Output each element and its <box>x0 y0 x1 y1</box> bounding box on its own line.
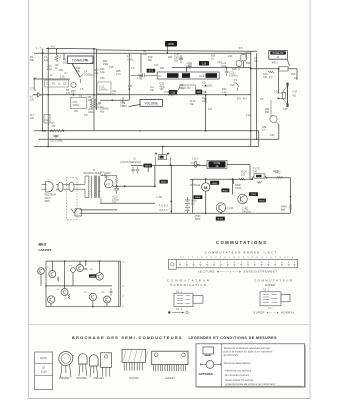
wire switch out 2 <box>80 212 195 214</box>
svg-text:R.4: R.4 <box>243 98 247 101</box>
svg-text:0.0022µ: 0.0022µ <box>84 74 93 77</box>
wire vertical mid x96.5 <box>96 49 98 110</box>
super switch box <box>260 292 290 306</box>
SW400 black label <box>144 164 153 168</box>
wire vertical x205.6 <box>205 95 207 131</box>
ecouteur boxed black label top right <box>269 51 290 66</box>
svg-text:C31: C31 <box>270 134 275 137</box>
BE3 frame wires <box>41 261 121 307</box>
svg-text:TRANSFO ALIM.: TRANSFO ALIM. <box>83 172 102 175</box>
sonorisation legend dots <box>168 311 188 313</box>
svg-text:IC-2: IC-2 <box>199 74 205 78</box>
svg-text:( HAUT PARLEUR ): ( HAUT PARLEUR ) <box>120 161 141 164</box>
wire motor bottom y213.3 <box>195 212 290 214</box>
resistor pair x94 <box>90 98 96 109</box>
switch strip ENREG/LECT <box>176 260 298 268</box>
svg-text:Ω: Ω <box>263 176 265 179</box>
wire piles v x171.3 <box>170 166 172 214</box>
svg-text:0.0047µ: 0.0047µ <box>229 74 238 77</box>
svg-text:COMMUTATIONS: COMMUTATIONS <box>216 240 266 245</box>
wire vertical left A <box>42 48 44 130</box>
page edge right <box>309 0 311 399</box>
svg-text:2SB186P: 2SB186P <box>59 377 70 380</box>
svg-text:2.2k: 2.2k <box>222 91 227 94</box>
C22 value <box>229 72 238 78</box>
svg-text:104: 104 <box>263 76 268 79</box>
black label R403 <box>216 217 225 221</box>
svg-text:450µ: 450µ <box>179 87 185 90</box>
legend underline <box>225 385 302 387</box>
BE3 black label <box>89 274 97 278</box>
svg-text:+10µ/25V: +10µ/25V <box>202 85 213 88</box>
jack component top <box>155 146 171 166</box>
capacitor C13 symbol <box>54 135 59 138</box>
wire right v x290.4 <box>289 178 291 214</box>
svg-text:2.2k: 2.2k <box>60 76 65 79</box>
svg-text:470Ω: 470Ω <box>235 187 241 190</box>
svg-text:150: 150 <box>265 111 270 114</box>
BE3 junction dots <box>45 260 100 307</box>
svg-text:4.7k: 4.7k <box>116 73 121 76</box>
black label R401 <box>193 195 202 199</box>
wire mid-band y165.5 <box>131 165 207 167</box>
package labels <box>59 377 176 380</box>
svg-text:102: 102 <box>241 174 246 177</box>
svg-text:R403: R403 <box>218 219 224 221</box>
small cap symbols cluster <box>139 55 192 80</box>
wire vertical label drop <box>166 47 168 54</box>
resistor below box <box>257 180 262 183</box>
wire left short y79 <box>33 78 70 80</box>
svg-text:LECTURE ◄―――┼――► ENREGISTREMEN: LECTURE ◄―――┼――► ENREGISTREMENT <box>198 269 277 273</box>
resistor R7 zigzag horizontal <box>51 130 63 133</box>
svg-text:4.7µ: 4.7µ <box>137 77 142 80</box>
wire v x240.4 <box>233 179 235 184</box>
wire stub Q transistor <box>243 61 245 68</box>
BE3 terminal labels <box>123 261 125 309</box>
wire BE3 right 2 <box>120 261 122 307</box>
svg-text:LA4400T: LA4400T <box>165 377 176 380</box>
wire switch out 1 <box>80 209 117 211</box>
black label R404 <box>258 199 266 203</box>
wire fuse to piles <box>227 164 250 166</box>
svg-text:R20: R20 <box>168 56 173 59</box>
C16 black label <box>199 61 209 66</box>
black label Q101 <box>249 192 258 196</box>
svg-text:potentiomètre de volume au min: potentiomètre de volume au minimum) <box>226 382 275 386</box>
svg-text:de 40 KΩ/V.: de 40 KΩ/V. <box>224 353 240 357</box>
svg-text:COMMUTATEUR ENREG./LECT.: COMMUTATEUR ENREG./LECT. <box>205 251 278 255</box>
wire transfo out <box>113 185 155 187</box>
resistor R31 vertical <box>115 177 117 186</box>
svg-text:- Alimenté sur secteur: - Alimenté sur secteur <box>224 369 252 373</box>
epoxy transistor 2SC693F <box>79 354 88 376</box>
resistor box black insert <box>256 175 262 178</box>
svg-text:C16: C16 <box>202 62 207 65</box>
sonorisation switch box <box>174 293 203 306</box>
extra value labels right <box>168 55 297 138</box>
svg-text:I.C.: I.C. <box>133 157 137 160</box>
SIP TA713PA <box>122 349 148 370</box>
wire stub resistor R5 <box>56 49 58 56</box>
parts table text <box>40 356 47 374</box>
BE3 transistor arrows <box>40 266 108 302</box>
input network box <box>45 80 69 87</box>
wire q101 v x232.6 <box>232 179 234 194</box>
svg-text:100k: 100k <box>63 62 69 65</box>
svg-text:2.2µ: 2.2µ <box>47 68 52 71</box>
switch strip left end box <box>168 260 176 270</box>
dots x205.6 <box>205 85 207 93</box>
wire top bus 1 right <box>97 50 258 51</box>
wire fuse corner <box>249 165 251 180</box>
svg-text:Ø131: Ø131 <box>40 356 47 360</box>
svg-text:P I L E S: P I L E S <box>159 205 169 208</box>
wire into IC-2 <box>131 73 157 77</box>
transistor Q102 <box>216 203 233 213</box>
speaker H.P. <box>277 83 289 108</box>
BE3 transistor Q3 <box>71 268 76 273</box>
svg-text:100µ: 100µ <box>88 111 94 114</box>
svg-text:C24: C24 <box>228 55 233 58</box>
pot P2 arrow <box>122 97 125 104</box>
svg-text:MOTEUR: MOTEUR <box>190 184 201 187</box>
PILES label <box>159 205 169 213</box>
legend monitor icon <box>203 347 214 356</box>
wire stub cap R17 <box>140 53 142 72</box>
svg-text:J-113: J-113 <box>192 158 198 161</box>
svg-text:2SC693F: 2SC693F <box>76 377 87 380</box>
legend outer box <box>196 344 305 388</box>
plug symbol J-113 <box>190 162 200 167</box>
black label C18 <box>169 90 177 94</box>
wire mid bus y95 <box>33 94 251 96</box>
svg-text:Q 102: Q 102 <box>227 207 234 210</box>
450u text <box>160 83 166 92</box>
BE3 transistor Q9 <box>104 296 111 303</box>
svg-text:LA4400T: LA4400T <box>39 248 52 252</box>
svg-text:4Ω: 4Ω <box>293 94 297 98</box>
svg-text:16V: 16V <box>112 201 117 204</box>
wire BE3 left <box>45 261 47 307</box>
wire vertical left B <box>47 48 49 146</box>
SECTEUR text <box>45 194 57 204</box>
junction dots top <box>42 48 280 148</box>
svg-text:R405: R405 <box>273 170 279 173</box>
svg-text:R29: R29 <box>246 62 251 65</box>
svg-text:SW40: SW40 <box>145 166 152 168</box>
resistor R405 zigzag h <box>276 176 283 178</box>
BE3 transistor Q6 <box>61 289 68 296</box>
wire vertical right x250.8 <box>250 51 252 147</box>
svg-text:R28: R28 <box>232 68 237 71</box>
resistor R5 zigzag <box>55 55 58 62</box>
M400 black label <box>160 180 168 184</box>
svg-text:330: 330 <box>253 171 258 174</box>
svg-text:8.2k: 8.2k <box>44 59 49 62</box>
svg-text:6x1,5 V: 6x1,5 V <box>160 209 169 212</box>
svg-text:S3 - 2: S3 - 2 <box>263 289 270 292</box>
svg-text:M400: M400 <box>161 182 167 184</box>
svg-text:R 5: R 5 <box>51 46 55 49</box>
extra value labels top-left <box>30 47 94 122</box>
wire motor top right <box>267 177 291 179</box>
switch V symbol <box>71 209 82 217</box>
wire motor v below <box>205 191 207 213</box>
svg-text:SUPER ◄― ―► NORMAL: SUPER ◄― ―► NORMAL <box>254 310 296 314</box>
svg-text:C20: C20 <box>197 92 202 94</box>
svg-text:50Hz: 50Hz <box>45 200 51 203</box>
svg-text:470: 470 <box>66 92 71 95</box>
capacitor C22 <box>225 68 229 76</box>
epoxy transistor 2SB0254 <box>90 355 99 377</box>
BE3 small marks <box>57 269 113 300</box>
junction dots motor <box>205 177 291 214</box>
legend right column text <box>224 346 275 386</box>
bridge rectifier B31 <box>105 179 113 187</box>
svg-text:Ω: Ω <box>277 55 279 59</box>
BE3 transistor Q5 <box>96 273 103 280</box>
wire motor left side <box>192 179 194 213</box>
wire x148.2 drop <box>147 166 149 173</box>
svg-text:C20: C20 <box>100 77 105 80</box>
svg-text:C23: C23 <box>217 61 222 64</box>
svg-text:R21: R21 <box>160 67 165 70</box>
page edge bottom <box>29 398 311 400</box>
resistor RCH zigzag in wire <box>239 178 245 180</box>
parts table <box>35 352 53 390</box>
svg-text:N: N <box>159 74 161 78</box>
wire bump under IC-2 <box>164 85 206 92</box>
BE3 transistor Q7 <box>48 296 55 303</box>
transistor top-right <box>240 53 247 61</box>
BE3 transistor Q1 <box>38 268 45 275</box>
wire x154.9 drop <box>154 166 156 187</box>
svg-text:10µ: 10µ <box>187 87 192 90</box>
transistor Q101 <box>238 194 248 204</box>
svg-text:R405: R405 <box>212 183 218 185</box>
wire right end x297 <box>296 69 298 80</box>
svg-text:0.4022µ: 0.4022µ <box>242 211 251 214</box>
svg-text:0.039µ: 0.039µ <box>55 140 63 143</box>
transformer Tr <box>85 176 117 204</box>
capacitor C12 box <box>71 98 87 109</box>
capacitor C31 <box>114 185 119 195</box>
svg-text:Q101: Q101 <box>251 194 257 196</box>
pot P1 arrow <box>237 83 240 91</box>
svg-text:0.1 W: 0.1 W <box>100 174 107 177</box>
page edge left <box>28 0 30 399</box>
box 0.0047 <box>97 82 111 94</box>
wire BE3 right 1 <box>118 261 120 307</box>
svg-text:1 - 7: 1 - 7 <box>36 47 41 50</box>
svg-text:BROCHAGE DES SEMI-CONDUCTEUR: BROCHAGE DES SEMI-CONDUCTEURS <box>72 335 182 340</box>
input jack arrow <box>34 78 41 97</box>
svg-text:PRISE HP: PRISE HP <box>273 53 284 55</box>
svg-text:10µ: 10µ <box>112 93 117 96</box>
small parts cluster left-top texts <box>30 46 104 143</box>
svg-text:S2 - 2: S2 - 2 <box>176 308 183 311</box>
R-1 0.1W text <box>100 171 107 177</box>
svg-text:16V: 16V <box>174 60 179 63</box>
svg-text:470: 470 <box>208 108 213 111</box>
TO-39 can 2SB186P <box>59 352 74 378</box>
extra value labels mid <box>103 56 173 96</box>
wire under transfo <box>100 202 155 204</box>
svg-text:IC-1: IC-1 <box>149 71 154 73</box>
label TONALITE box <box>68 56 94 77</box>
battery symbol <box>185 197 190 213</box>
label VOLUME box <box>129 100 163 107</box>
transistor pair lower <box>236 54 247 71</box>
ZIP LA4400T <box>152 351 188 371</box>
svg-text:VOLUME: VOLUME <box>144 102 157 106</box>
wire bus y146.5 <box>34 146 259 148</box>
svg-text:16V: 16V <box>160 88 165 91</box>
svg-text:39µ: 39µ <box>190 103 195 106</box>
transistor Q1 <box>71 82 76 87</box>
wire volume feed <box>100 99 129 101</box>
svg-text:R407: R407 <box>223 190 229 192</box>
svg-text:C17: C17 <box>154 64 159 67</box>
wire top bus 2 <box>34 52 251 54</box>
svg-text:1000µ: 1000µ <box>73 104 80 107</box>
resistor R14 zigzag <box>205 98 207 103</box>
svg-text:R11: R11 <box>59 69 64 72</box>
svg-text:45V: 45V <box>100 111 105 114</box>
connector plug pair <box>56 182 85 191</box>
svg-text:BE3: BE3 <box>39 241 47 246</box>
IC-1 black label <box>147 69 156 73</box>
motor area texts <box>191 170 287 221</box>
black label R407 <box>221 188 229 192</box>
black label R405a <box>210 181 219 185</box>
svg-text:2-3: 2-3 <box>106 182 110 186</box>
black label C-20 <box>195 90 202 94</box>
wire vertical right x256.5 <box>256 53 258 139</box>
svg-text:C25: C25 <box>230 84 235 87</box>
wire bus y139 <box>39 138 279 140</box>
label black tag 2009 <box>165 41 177 47</box>
svg-text:16V: 16V <box>74 110 79 113</box>
transformer label <box>83 169 102 175</box>
svg-text:Tensions alternatives: Tensions alternatives <box>224 361 252 365</box>
BE3 transistor Q4 <box>77 265 84 272</box>
wire speaker drop <box>278 69 280 93</box>
wire box link top <box>252 176 253 179</box>
svg-text:C30: C30 <box>283 108 288 111</box>
wire corner x278.8 <box>278 124 280 139</box>
wire motor top left <box>190 178 252 180</box>
wire corner x258.7 <box>258 131 260 147</box>
wire stub IC2 feed <box>186 68 188 72</box>
svg-text:L 401: L 401 <box>157 196 164 199</box>
transistor right mid <box>270 100 279 124</box>
BE3 transistor Q2 <box>49 271 56 278</box>
svg-text:C 47µ: C 47µ <box>127 59 134 62</box>
svg-text:0.0µ: 0.0µ <box>44 119 49 122</box>
svg-text:680: 680 <box>281 209 286 212</box>
caps cluster mid texts <box>100 47 296 177</box>
svg-text:LEGENDES ET CONDITIONS DE: LEGENDES ET CONDITIONS DE MESURES <box>189 336 278 340</box>
wire BE3 drops <box>52 261 54 270</box>
svg-text:TA713PA: TA713PA <box>129 377 140 380</box>
svg-text:2SB0254: 2SB0254 <box>93 377 104 380</box>
resistor R406 zigzag v <box>289 205 291 210</box>
svg-text:0.0047µ: 0.0047µ <box>99 89 108 92</box>
svg-text:33µ: 33µ <box>150 89 155 92</box>
small caps above haut parleur <box>131 167 139 174</box>
I.C. HAUT PARLEUR label <box>120 157 141 164</box>
svg-text:APPAREIL: APPAREIL <box>199 372 214 376</box>
wire y67.6 mid <box>172 67 251 69</box>
wire bus y131 <box>34 130 259 132</box>
fuse box FUSE 1A <box>207 160 227 168</box>
C31 labels <box>104 172 119 205</box>
wire vertical x129.3 <box>128 53 130 100</box>
BE3 transistor Q8 <box>89 293 96 300</box>
svg-text:H.P: H.P <box>293 90 298 94</box>
legend meter icon <box>201 361 221 369</box>
TO-126 2SD0254 <box>101 353 112 377</box>
wire BE3 bottom <box>46 306 121 308</box>
wire BE3 top <box>46 260 121 262</box>
svg-text:1A: 1A <box>215 165 218 168</box>
svg-text:- En fonction lecture: - En fonction lecture <box>224 373 250 377</box>
wire speaker bus y68.7 <box>251 68 297 70</box>
resistor box on speaker line <box>279 66 288 71</box>
svg-text:1210: 1210 <box>41 370 48 374</box>
svg-text:C18: C18 <box>109 66 114 69</box>
op-amp IC-2 block <box>157 72 219 79</box>
resistor box on top wire <box>254 174 265 178</box>
AC plug SECTEUR <box>42 182 54 192</box>
svg-text:COMMUTATEUR: COMMUTATEUR <box>254 278 292 282</box>
motor M <box>202 183 210 191</box>
svg-text:479µ: 479µ <box>168 94 174 97</box>
svg-text:R15: R15 <box>291 73 296 76</box>
junction dots mid <box>116 165 156 188</box>
wire stub x64 <box>63 53 65 60</box>
svg-text:6802: 6802 <box>195 218 201 221</box>
BE3 tiny part labels <box>47 266 106 295</box>
svg-text:2009: 2009 <box>168 42 174 46</box>
svg-text:SUPER: SUPER <box>265 283 275 287</box>
wire top bus 1 <box>46 47 97 50</box>
wire BE3 mid h <box>46 285 112 287</box>
boxed resistor R7 <box>44 115 50 124</box>
L5 204 text <box>123 102 128 108</box>
section separator line <box>29 324 311 326</box>
svg-text:2.2k: 2.2k <box>246 114 251 117</box>
svg-text:C-7: C-7 <box>30 88 35 91</box>
wire motor v x205.7 <box>205 179 207 183</box>
wire vertical mid x94 <box>93 49 95 131</box>
svg-text:5.6k: 5.6k <box>100 71 105 74</box>
svg-text:R404: R404 <box>259 201 265 203</box>
svg-text:L3 - -: L3 - - <box>268 307 274 310</box>
commutateur super label <box>254 278 292 287</box>
resistor R16 zigzag <box>268 71 274 73</box>
pot arrow tonalite <box>80 75 83 84</box>
svg-text:204: 204 <box>123 105 128 108</box>
commutateur sonorisation label <box>167 278 209 287</box>
chassis dashed box <box>67 178 78 220</box>
